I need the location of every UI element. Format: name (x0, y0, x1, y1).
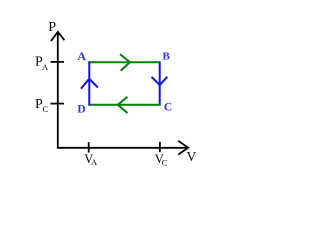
tick P_A (51, 61, 65, 63)
process A->B top edge (green) (88, 61, 160, 63)
tick V_C (159, 142, 161, 152)
process C->D bottom edge (green) (88, 104, 160, 106)
svg-text:B: B (163, 51, 171, 63)
arrowhead C->D (118, 97, 128, 113)
arrowhead D->A (81, 79, 98, 89)
V axis arrowhead (178, 141, 188, 155)
P axis (vertical) (57, 32, 59, 149)
svg-text:D: D (77, 104, 85, 116)
svg-text:A: A (42, 62, 49, 72)
svg-text:P: P (48, 20, 56, 35)
svg-text:C: C (43, 104, 49, 114)
tick P_C (51, 103, 65, 105)
svg-text:V: V (187, 149, 197, 164)
process B->C right edge (blue) (159, 62, 161, 106)
arrowhead B->C (152, 77, 168, 85)
arrowhead A->B (120, 54, 130, 70)
svg-text:A: A (77, 49, 86, 63)
process D->A left edge (blue) (88, 62, 90, 106)
P axis arrowhead (51, 32, 64, 41)
svg-text:A: A (91, 157, 98, 167)
svg-text:C: C (164, 102, 172, 114)
V axis (horizontal) (57, 147, 188, 149)
svg-text:C: C (162, 157, 168, 167)
tick V_A (88, 142, 90, 152)
